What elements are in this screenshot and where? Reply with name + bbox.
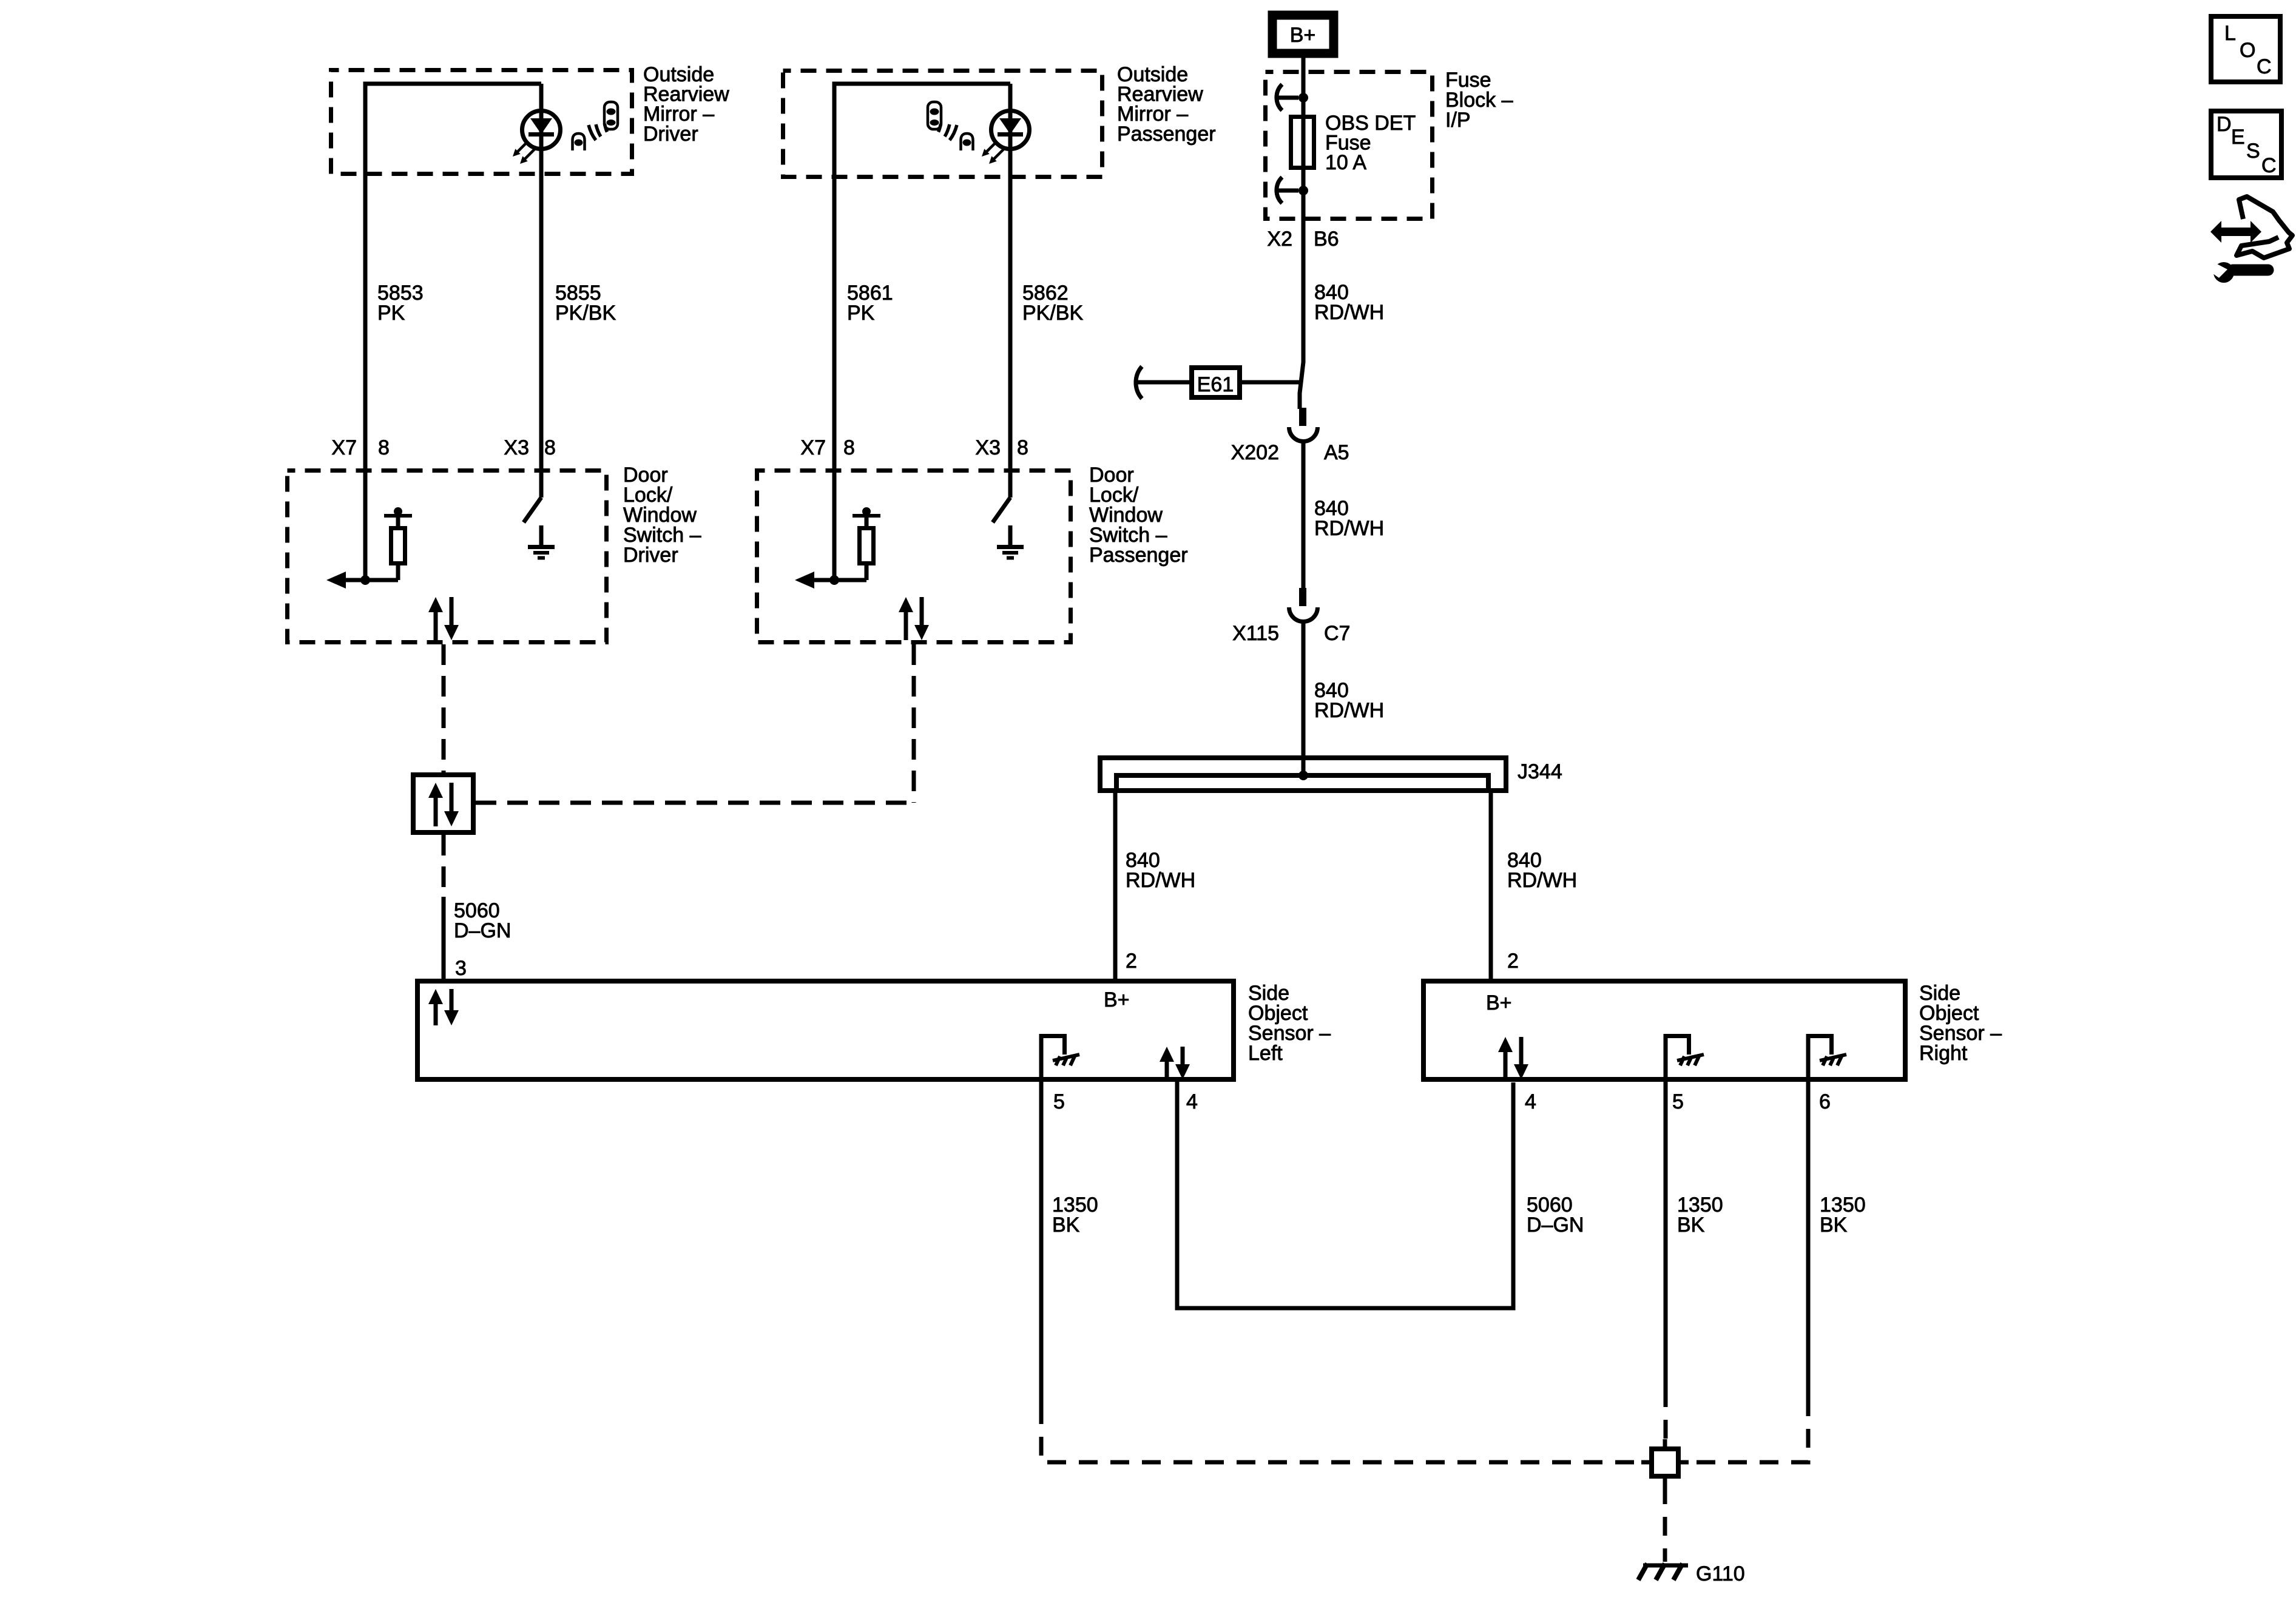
wire 5862 PK/BK — [1008, 84, 1013, 498]
ground G110 — [1638, 1564, 1688, 1580]
wire J344 to left sensor pin 2 — [1113, 792, 1118, 979]
label OBS DET fuse 10 A — [1325, 112, 1416, 174]
splice pack J344 — [1100, 758, 1506, 791]
svg-text:D–GN: D–GN — [454, 919, 511, 942]
svg-text:C: C — [2261, 154, 2277, 177]
svg-text:8: 8 — [1017, 436, 1028, 459]
door lock/window switch passenger dashed box — [757, 471, 1071, 643]
up/down arrows in logic box — [428, 783, 459, 826]
junction dot upper fuse terminal — [1298, 93, 1308, 103]
fuse OBS DET 10A — [1291, 117, 1314, 168]
junction dot passenger switch — [829, 575, 839, 585]
svg-text:RD/WH: RD/WH — [1507, 869, 1577, 892]
svg-text:L: L — [2224, 22, 2236, 45]
wire label 5861 PK — [847, 282, 893, 325]
fuse terminal hook lower — [1275, 177, 1298, 203]
wire J344 to right sensor pin 2 — [1489, 792, 1493, 979]
svg-text:BK: BK — [1677, 1213, 1705, 1237]
svg-text:J344: J344 — [1518, 760, 1562, 783]
svg-text:S: S — [2246, 140, 2260, 163]
svg-text:8: 8 — [378, 436, 390, 459]
wire label 5060 D-GN — [454, 899, 511, 942]
svg-text:C7: C7 — [1324, 622, 1350, 645]
svg-text:6: 6 — [1819, 1090, 1831, 1113]
svg-text:I/P: I/P — [1445, 109, 1471, 132]
blind zone icon driver — [573, 102, 618, 150]
wire mirror loop top — [363, 82, 542, 86]
window up/down arrows passenger switch — [899, 597, 929, 640]
svg-text:Passenger: Passenger — [1117, 123, 1216, 146]
wire label 840 RD/WH upper — [1314, 281, 1384, 324]
svg-text:RD/WH: RD/WH — [1314, 517, 1384, 540]
dashed wire passenger switch stub — [912, 644, 916, 803]
window up/down arrows driver switch — [428, 597, 459, 640]
door lock/window switch driver dashed box — [288, 471, 607, 643]
svg-text:8: 8 — [843, 436, 855, 459]
svg-text:X202: X202 — [1231, 441, 1279, 464]
svg-text:G110: G110 — [1696, 1562, 1745, 1585]
label outside rearview mirror passenger — [1117, 63, 1216, 146]
svg-text:Driver: Driver — [623, 544, 678, 567]
svg-text:PK/BK: PK/BK — [1022, 302, 1083, 325]
svg-text:PK: PK — [377, 302, 405, 325]
svg-text:PK: PK — [847, 302, 875, 325]
dashed ground path left — [1041, 1405, 1642, 1462]
svg-text:RD/WH: RD/WH — [1314, 699, 1384, 722]
wire 1350 BK right sensor pin 5 — [1664, 1082, 1668, 1388]
switch blade passenger — [993, 498, 1010, 522]
ground junction square — [1641, 1439, 1689, 1485]
label outside rearview mirror driver — [643, 63, 729, 146]
outside rearview mirror passenger dashed box — [783, 71, 1102, 177]
wire mirror loop top passenger — [832, 82, 1011, 86]
wire 5060 D-GN to sensor pin 3 — [442, 897, 446, 979]
DESC reference box — [2211, 111, 2281, 178]
service wrench — [2209, 262, 2268, 283]
wire label 840 RD/WH right branch — [1507, 849, 1577, 892]
dashed to ground junction — [1664, 1388, 1668, 1440]
B+ battery feed box — [1272, 15, 1334, 53]
svg-text:A5: A5 — [1324, 441, 1349, 464]
wire label 5862 PK/BK — [1022, 282, 1083, 325]
svg-text:X3: X3 — [504, 436, 529, 459]
svg-text:4: 4 — [1525, 1090, 1536, 1113]
wire 1350 BK right sensor pin 6 — [1806, 1082, 1811, 1405]
svg-text:2: 2 — [1507, 950, 1519, 973]
wire E61 left lead — [1137, 380, 1192, 385]
service pointer outline — [2237, 197, 2292, 258]
svg-text:X2: X2 — [1267, 228, 1292, 251]
resistor in driver switch — [384, 507, 412, 580]
up/down arrow box (window logic) — [413, 775, 473, 832]
wire 1350 BK left sensor pin 5 — [1039, 1082, 1044, 1405]
svg-text:8: 8 — [544, 436, 556, 459]
junction dot lower fuse terminal — [1298, 186, 1308, 195]
wire 5060 D-GN sensor link — [1177, 1082, 1513, 1308]
connector X202 pin A5 — [1289, 408, 1318, 441]
svg-text:Right: Right — [1919, 1042, 1968, 1065]
fuse block I/P dashed box — [1266, 72, 1433, 219]
up/down arrows left sensor pin3 — [428, 989, 459, 1025]
svg-text:3: 3 — [455, 957, 467, 980]
wire 840 to J344 — [1302, 621, 1306, 775]
fuse terminal hook upper — [1275, 84, 1298, 110]
svg-text:Driver: Driver — [643, 123, 698, 146]
label door lock window switch passenger — [1089, 464, 1188, 567]
dashed ground path right — [1688, 1405, 1808, 1462]
label side object sensor left — [1248, 982, 1331, 1065]
wire 840 to X115 — [1302, 441, 1306, 588]
dashed wire driver switch to arrow box — [442, 644, 446, 772]
LED turn indicator driver mirror — [513, 111, 561, 164]
svg-text:5: 5 — [1053, 1090, 1065, 1113]
wire label 840 RD/WH left branch — [1126, 849, 1195, 892]
svg-text:Left: Left — [1248, 1042, 1283, 1065]
side object sensor left box — [417, 981, 1234, 1079]
arrow output passenger switch — [795, 572, 866, 589]
arrow output driver switch — [326, 572, 398, 589]
dashed wire logic box to passenger switch — [476, 801, 914, 805]
svg-text:B+: B+ — [1290, 24, 1316, 47]
service double arrow — [2210, 221, 2261, 243]
label fuse block I/P — [1445, 69, 1513, 132]
svg-text:B+: B+ — [1104, 988, 1130, 1011]
internal ground right sensor pin 6 — [1806, 1034, 1847, 1082]
svg-text:C: C — [2257, 55, 2272, 78]
wire label 1350 BK right — [1820, 1193, 1866, 1237]
svg-text:5: 5 — [1672, 1090, 1684, 1113]
svg-text:10 A: 10 A — [1325, 151, 1366, 174]
svg-text:2: 2 — [1126, 950, 1137, 973]
wire label 840 RD/WH lower — [1314, 679, 1384, 722]
wire 5855 PK/BK — [539, 84, 544, 498]
ground symbol in driver switch — [528, 525, 555, 558]
dashed wire logic box down — [442, 835, 446, 897]
svg-text:4: 4 — [1186, 1090, 1198, 1113]
svg-text:X7: X7 — [800, 436, 826, 459]
wire label 1350 BK left — [1052, 1193, 1098, 1237]
svg-text:X7: X7 — [331, 436, 357, 459]
label side object sensor right — [1919, 982, 2002, 1065]
svg-text:BK: BK — [1052, 1213, 1080, 1237]
E61 splice lead hook — [1136, 366, 1142, 399]
wire label 5060 D-GN link — [1527, 1193, 1584, 1237]
blind zone icon passenger — [928, 102, 973, 150]
svg-text:D: D — [2217, 113, 2232, 136]
svg-text:B6: B6 — [1314, 228, 1339, 251]
wire 5861 PK — [832, 82, 837, 578]
internal ground right sensor pin 5 — [1664, 1034, 1704, 1082]
ground symbol in passenger switch — [997, 525, 1024, 558]
svg-text:E: E — [2231, 126, 2245, 149]
wire label 840 RD/WH middle — [1314, 497, 1384, 540]
wire B+ through fuse block — [1300, 53, 1303, 409]
wire 5853 PK — [363, 82, 368, 578]
svg-text:D–GN: D–GN — [1527, 1213, 1584, 1237]
svg-text:X3: X3 — [975, 436, 1001, 459]
svg-text:RD/WH: RD/WH — [1126, 869, 1195, 892]
svg-text:Passenger: Passenger — [1089, 544, 1188, 567]
svg-text:BK: BK — [1820, 1213, 1848, 1237]
up/down arrows left sensor pin4 — [1160, 1047, 1190, 1079]
svg-text:PK/BK: PK/BK — [555, 302, 616, 325]
svg-text:X115: X115 — [1232, 622, 1279, 645]
internal ground left sensor pin 5 — [1039, 1034, 1080, 1082]
outside rearview mirror driver dashed box — [331, 70, 632, 174]
connector X115 pin C7 — [1289, 588, 1318, 622]
svg-text:E61: E61 — [1197, 373, 1234, 396]
dashed wire to G110 — [1663, 1485, 1667, 1562]
svg-text:O: O — [2240, 39, 2255, 62]
switch blade driver — [524, 498, 541, 522]
LED turn indicator passenger mirror — [982, 111, 1030, 164]
svg-text:B+: B+ — [1486, 991, 1512, 1014]
wire E61 to main — [1240, 380, 1300, 385]
junction dot driver switch — [360, 575, 370, 585]
E61 box — [1192, 368, 1240, 397]
wire label 1350 BK middle — [1677, 1193, 1723, 1237]
label door lock window switch driver — [623, 464, 701, 567]
up/down arrows right sensor pin4 — [1498, 1037, 1528, 1079]
side object sensor right box — [1423, 981, 1905, 1079]
svg-text:RD/WH: RD/WH — [1314, 301, 1384, 324]
LOC reference box — [2211, 16, 2280, 82]
resistor in passenger switch — [853, 507, 880, 580]
wire label 5853 PK — [377, 282, 424, 325]
wire label 5855 PK/BK — [555, 282, 616, 325]
